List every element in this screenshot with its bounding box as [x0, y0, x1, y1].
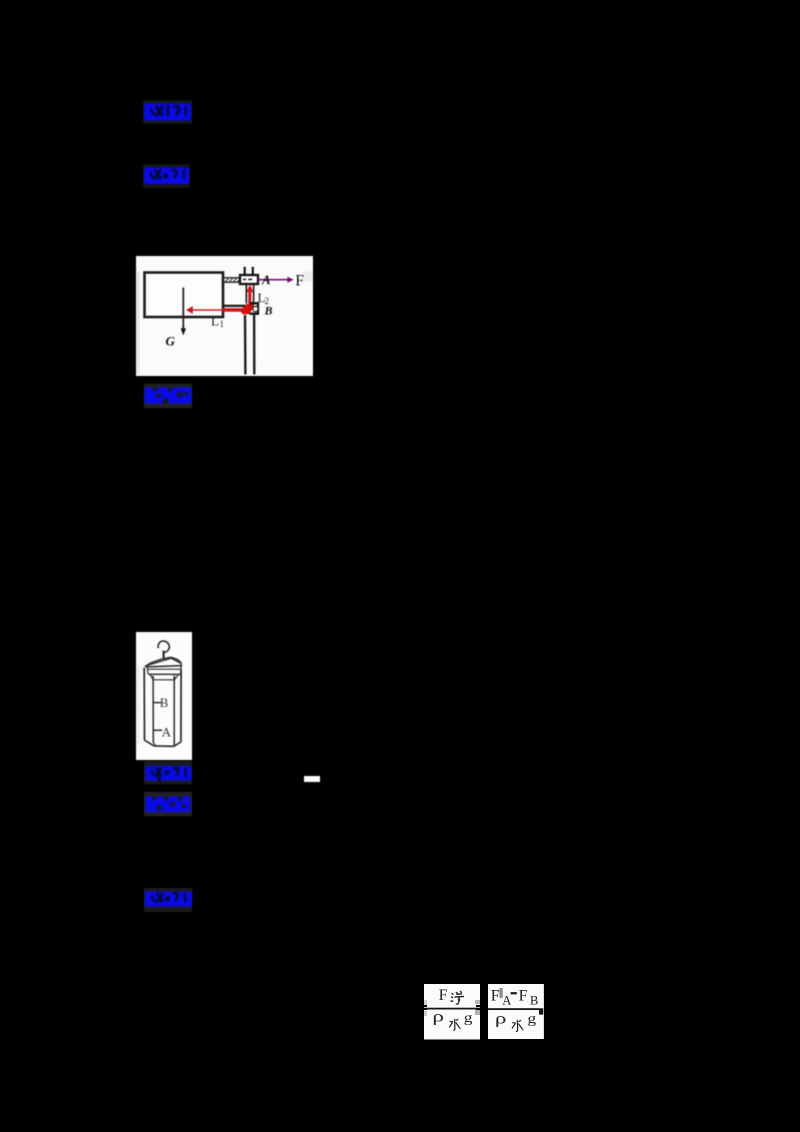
formula box left: F浮 / ρ水g: [424, 984, 480, 1040]
mark B tick: [153, 702, 161, 704]
red up arrow (L2): [246, 284, 253, 292]
cap plate: [146, 657, 182, 667]
hinge bracket B: [249, 303, 257, 313]
object rectangle: [144, 272, 223, 317]
rod to hinge B: [223, 304, 249, 306]
svg-text:B: B: [160, 695, 169, 710]
svg-text:F: F: [295, 272, 304, 289]
hinge bracket A: [240, 275, 258, 284]
svg-text:ρ: ρ: [495, 1010, 507, 1028]
white answer dash: [304, 776, 320, 782]
bottom bevels: [145, 740, 154, 746]
svg-text:A: A: [502, 993, 511, 1007]
cap collar: [150, 674, 153, 680]
水 subscript strokes: [449, 1019, 460, 1031]
rho: [432, 1008, 444, 1026]
figure: hanging hexagonal prism: [136, 632, 192, 760]
pole between A and B: [245, 284, 247, 304]
label L2 highlighted 【解答】: [143, 164, 190, 188]
svg-text:A: A: [261, 272, 271, 287]
svg-text:g: g: [464, 1011, 473, 1026]
svg-text:F: F: [519, 987, 528, 1004]
mark A tick: [153, 729, 162, 731]
rho: [495, 1010, 507, 1028]
red L1 arrow: [191, 309, 224, 311]
faint grey streak: [137, 665, 140, 745]
grey scan streak: [137, 272, 140, 374]
hook stem: [162, 651, 164, 666]
prism outer left edge: [143, 668, 145, 741]
svg-text:g: g: [528, 1012, 537, 1027]
svg-text:B: B: [263, 303, 272, 317]
figure: lever/pole diagram: [136, 256, 313, 376]
minus: [511, 992, 517, 994]
svg-text:F: F: [491, 987, 500, 1004]
label L3 【点评】 blue on grey: [144, 384, 193, 408]
cap ridge: [147, 658, 180, 665]
svg-text:G: G: [165, 333, 175, 348]
equals sign at left edge of left box: [424, 1005, 427, 1007]
cap band: [147, 668, 181, 670]
red blob at B: [239, 303, 253, 314]
hinge pin B: [252, 306, 257, 311]
prism inner right edge: [173, 676, 175, 747]
grey handles + equals at right edge of left box: [475, 1000, 480, 1004]
浮 subscript strokes: [451, 991, 464, 1004]
label L4 highlighted 【答案】: [144, 761, 193, 784]
centre line of object: [182, 287, 184, 328]
grey handles left edge: [424, 1000, 427, 1005]
prism outer right edge: [180, 670, 182, 742]
g: [464, 1011, 473, 1026]
svg-text:ρ: ρ: [432, 1008, 444, 1026]
g: [528, 1012, 537, 1027]
svg-text:L: L: [211, 313, 219, 328]
grey square behind F: [304, 271, 313, 281]
label L6 highlighted 【点评】: [144, 888, 193, 912]
hatched rod to hinge A: [223, 276, 240, 278]
水 subscript strokes: [512, 1020, 523, 1032]
svg-text:A: A: [162, 724, 172, 739]
pole prongs above bracket A: [243, 266, 245, 274]
fraction bar: [424, 1008, 480, 1010]
purple force F arrow: [258, 278, 288, 280]
fraction bar: [488, 1008, 539, 1010]
prism inner left edge: [152, 676, 154, 743]
svg-text:B: B: [530, 993, 538, 1007]
hook: [158, 641, 169, 652]
label L1 highlighted 【分析】: [143, 100, 192, 124]
F A: [500, 988, 503, 998]
label L5 【解析】 blue on grey: [144, 792, 193, 816]
svg-text:1: 1: [219, 319, 224, 329]
svg-text:F: F: [438, 987, 447, 1004]
pole below B: [243, 315, 246, 375]
comma blob: [539, 1008, 543, 1014]
G arrowhead: [180, 328, 185, 335]
formula box right: (FA-FB) / ρ水g: [488, 984, 544, 1039]
